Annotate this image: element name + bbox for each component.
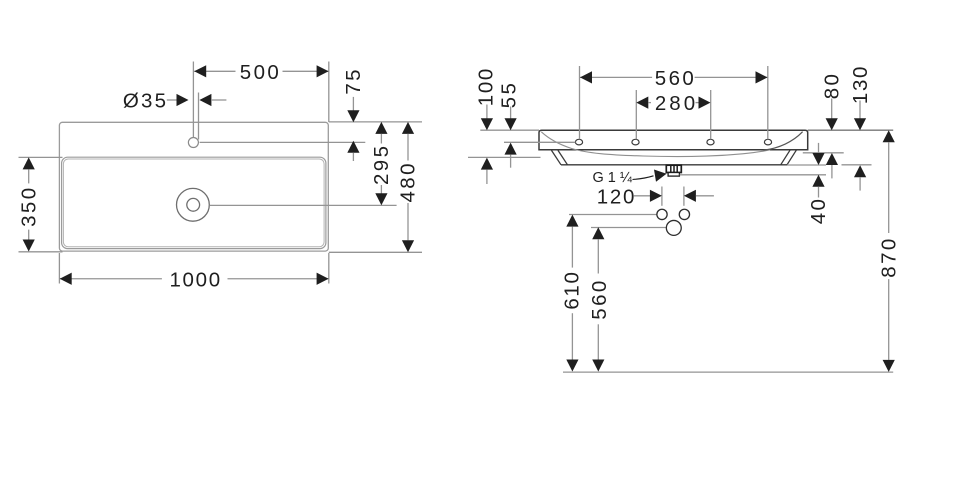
right edge vertical extension above rect xyxy=(328,62,330,123)
floor line xyxy=(563,371,893,373)
svg-text:610: 610 xyxy=(561,270,584,309)
svg-text:280: 280 xyxy=(655,92,698,115)
dim 295 xyxy=(370,122,393,205)
upper holes ext line xyxy=(569,214,657,216)
fixing hole left xyxy=(657,209,667,219)
fitting-bottom ext for 40 xyxy=(680,174,826,176)
pedestal-bottom ext segment a xyxy=(787,164,826,166)
svg-text:350: 350 xyxy=(18,185,41,226)
1000 left extension line xyxy=(58,253,60,284)
rim hole 2 xyxy=(632,139,639,145)
faucet hole circle xyxy=(188,138,198,148)
drain fitting body xyxy=(668,173,679,177)
560 left ext xyxy=(579,66,581,139)
dim G 1 1/4 label xyxy=(593,170,633,186)
pedestal left slope outer xyxy=(552,150,562,164)
rim hole 3 xyxy=(707,139,714,145)
drain circle inner xyxy=(187,198,200,211)
hole right-edge extension for dia35 xyxy=(198,93,200,140)
basin underside ext for 80 xyxy=(803,152,844,154)
dim 75 xyxy=(342,67,365,161)
bowl underside sweep curve xyxy=(541,132,770,157)
svg-text:80: 80 xyxy=(820,72,843,100)
washbasin front view rim band xyxy=(539,130,808,150)
svg-text:560: 560 xyxy=(655,67,696,90)
pedestal left slope inner xyxy=(558,150,568,164)
dim 130 xyxy=(849,65,872,191)
280 right ext xyxy=(710,90,712,139)
top reference line left segment xyxy=(480,129,539,131)
right corner interior curve xyxy=(764,132,803,151)
svg-text:130: 130 xyxy=(849,65,872,104)
560 right ext xyxy=(767,66,769,139)
350 top extension line xyxy=(19,156,63,158)
svg-text:100: 100 xyxy=(475,67,498,106)
svg-text:40: 40 xyxy=(807,197,830,225)
drain circle outer xyxy=(177,188,210,221)
lower hole ext line xyxy=(591,227,666,229)
faucet centerline extension xyxy=(192,62,194,138)
dim 500 xyxy=(194,61,328,84)
dim 40 xyxy=(807,143,830,224)
fixing hole right xyxy=(679,209,689,219)
dim 350 xyxy=(18,157,41,251)
svg-text:295: 295 xyxy=(370,144,393,185)
svg-text:1000: 1000 xyxy=(169,268,221,291)
dim 280 xyxy=(636,92,710,115)
120 left ext xyxy=(661,187,663,206)
dim 480 xyxy=(397,122,420,252)
washbasin top view inner basin rim (double line) xyxy=(62,157,326,248)
dim 610 xyxy=(561,215,584,372)
bowl depth ext for 100 xyxy=(468,156,541,158)
dim 55 xyxy=(497,81,520,168)
dim 870 xyxy=(878,130,901,372)
G 1 1/4 leader line xyxy=(633,176,654,180)
svg-text:75: 75 xyxy=(342,67,365,95)
hole-center horizontal extension for 75 xyxy=(200,141,366,143)
overflow level ext for 55 xyxy=(504,141,575,143)
pedestal right slope outer xyxy=(787,150,796,165)
pedestal bottom line xyxy=(561,164,787,166)
dim 80 xyxy=(820,72,843,179)
svg-text:Ø35: Ø35 xyxy=(123,90,168,113)
svg-text:480: 480 xyxy=(397,161,420,202)
svg-text:G 1 ¼: G 1 ¼ xyxy=(593,170,633,186)
svg-text:55: 55 xyxy=(497,81,520,109)
svg-text:560: 560 xyxy=(588,278,611,319)
350 bottom extension line xyxy=(19,251,63,253)
280 left ext xyxy=(635,90,637,139)
rect-bottom horizontal extension to right xyxy=(329,251,422,253)
dim dia 35 xyxy=(123,90,226,113)
fixing hole center big xyxy=(666,220,681,235)
dim 120 xyxy=(597,185,714,208)
pedestal-bottom ext segment b xyxy=(842,164,872,166)
svg-text:870: 870 xyxy=(878,236,901,277)
dim 560 top xyxy=(580,67,768,90)
svg-text:120: 120 xyxy=(597,185,636,208)
pedestal right slope inner xyxy=(781,150,790,165)
svg-text:500: 500 xyxy=(240,61,281,84)
dim 1000 xyxy=(60,268,329,291)
dim 100 xyxy=(475,67,498,184)
washbasin top view outer rect xyxy=(59,122,328,251)
dim 560 vertical xyxy=(588,227,611,371)
rim hole 4 xyxy=(764,139,771,145)
120 right ext xyxy=(683,187,685,206)
1000 right extension line xyxy=(328,253,330,284)
drain fitting flange (threaded) xyxy=(666,165,681,172)
rect-top horizontal extension to right xyxy=(329,121,422,123)
rim hole 1 xyxy=(575,139,582,145)
top reference line right segment xyxy=(808,129,894,131)
drain-center horizontal extension for 295 xyxy=(210,204,397,206)
G 1 1/4 leader arrowhead xyxy=(654,170,667,182)
